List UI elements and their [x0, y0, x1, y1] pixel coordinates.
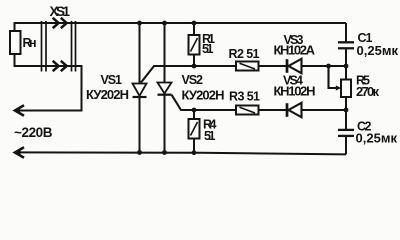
- dinistor VS4: [287, 103, 302, 117]
- svg-text:51: 51: [204, 129, 216, 143]
- label VS3: [284, 33, 304, 47]
- wire VS3 to right node: [302, 65, 347, 67]
- svg-text:~220В: ~220В: [14, 125, 53, 140]
- node R1 to upper gate path: [192, 64, 197, 69]
- connector XS1 top pin arrows: [53, 18, 67, 28]
- svg-text:КУ202Н: КУ202Н: [86, 87, 129, 102]
- wire VS1 gate to upper path: [141, 66, 236, 83]
- resistor R5 (variable): [341, 74, 379, 99]
- wire VS4 to right node: [302, 109, 347, 111]
- resistor Rн (load): [10, 31, 37, 54]
- resistor R3: [229, 89, 260, 114]
- wire VS1 cathode: [139, 97, 141, 153]
- node upper right (C1 / R5 / VS3): [344, 64, 349, 69]
- label VS4: [283, 74, 303, 88]
- mains return arrow (left, bottom rail): [14, 147, 24, 157]
- node VS1 anode on top rail: [137, 21, 142, 26]
- node R5 wiper branch: [326, 64, 331, 69]
- wire R2 to VS3: [259, 65, 287, 67]
- wire R4 top lead: [193, 110, 195, 119]
- connector XS1 bottom pin arrows: [53, 61, 67, 71]
- svg-text:R2 51: R2 51: [229, 47, 260, 61]
- wire Rн bottom to XS1 lower wire and down to mains feed: [15, 54, 82, 111]
- label VS1: [101, 73, 123, 87]
- resistor R4: [189, 118, 217, 143]
- label XS1: [50, 4, 71, 19]
- svg-text:270к: 270к: [356, 84, 379, 99]
- svg-text:КУ202Н: КУ202Н: [182, 87, 225, 102]
- thyristor VS1 anode wire: [139, 23, 141, 83]
- wire R5 bottom lead: [345, 97, 347, 110]
- label ~220В: [14, 125, 53, 140]
- svg-text:51: 51: [202, 42, 214, 56]
- label КН102Н: [274, 84, 316, 99]
- label КН102А: [274, 43, 316, 58]
- dinistor VS3: [287, 59, 302, 73]
- svg-text:XS1: XS1: [50, 4, 71, 19]
- svg-text:КН102А: КН102А: [274, 43, 316, 58]
- node lower right (C2 / R5 / VS4): [344, 108, 349, 113]
- svg-text:Rн: Rн: [23, 36, 37, 50]
- wire R1 bottom lead: [193, 55, 195, 67]
- wire R5 top lead: [345, 66, 347, 80]
- thyristor VS2: [158, 83, 172, 95]
- wire R3 to VS4: [259, 109, 287, 111]
- resistor R1: [189, 32, 216, 56]
- label 0,25мк of C2: [356, 131, 398, 146]
- wire R1 top lead: [193, 23, 195, 35]
- node VS2 cathode on bottom rail: [162, 150, 167, 155]
- label КУ202Н of VS2: [182, 87, 225, 102]
- label 0,25мк of C1: [357, 43, 399, 58]
- node R1 on top rail: [192, 21, 197, 26]
- wire top rail: [15, 23, 347, 31]
- mains feed arrow (left): [14, 105, 24, 115]
- svg-text:VS1: VS1: [101, 73, 123, 87]
- wire bottom rail: [16, 152, 346, 154]
- node VS1 cathode on bottom rail: [137, 150, 142, 155]
- svg-text:0,25мк: 0,25мк: [356, 131, 398, 146]
- capacitor C2: [338, 110, 354, 154]
- svg-text:VS2: VS2: [182, 73, 204, 87]
- svg-text:КН102Н: КН102Н: [274, 84, 316, 99]
- node VS2 anode on top rail: [162, 21, 167, 26]
- node R4 to lower gate path: [192, 108, 197, 113]
- wire R4 bottom lead: [193, 139, 195, 153]
- svg-text:0,25мк: 0,25мк: [357, 43, 399, 58]
- thyristor VS1: [133, 84, 147, 98]
- resistor R2: [229, 47, 260, 70]
- capacitor C1: [338, 23, 354, 66]
- svg-text:R3 51: R3 51: [229, 89, 260, 103]
- label C2: [357, 120, 372, 134]
- label КУ202Н of VS1: [86, 87, 129, 102]
- thyristor VS2 anode wire: [164, 23, 166, 83]
- wire VS2 gate to lower path: [172, 95, 237, 110]
- node R4 on bottom rail: [192, 150, 197, 155]
- connector XS1 bars: [42, 21, 76, 72]
- label VS2: [182, 73, 204, 87]
- wire VS2 cathode: [164, 95, 166, 153]
- label C1: [358, 31, 373, 45]
- wire R5 wiper branch: [329, 66, 342, 91]
